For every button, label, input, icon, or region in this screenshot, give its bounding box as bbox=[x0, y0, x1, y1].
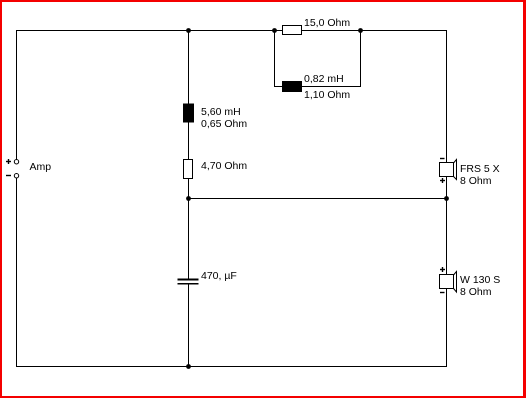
speaker U1 FRS 5 X box bbox=[440, 163, 454, 177]
speaker U2 cone bbox=[454, 272, 457, 293]
node F junction dot bottom bbox=[186, 364, 191, 369]
speaker U2 W 130 S box bbox=[440, 275, 454, 289]
wire bottom return bbox=[16, 366, 447, 368]
svg-text:Amp: Amp bbox=[30, 161, 52, 173]
speaker U2 minus sign bbox=[440, 292, 445, 294]
wire parallel-loop right vertical bbox=[360, 30, 362, 87]
svg-text:5,60 mH: 5,60 mH bbox=[201, 106, 241, 118]
node C junction dot loop right bbox=[358, 28, 363, 33]
wire middle horizontal (node B to right branch) bbox=[188, 198, 447, 200]
amp plus sign bbox=[6, 159, 11, 164]
wire top (node IN to right branch) bbox=[16, 30, 447, 32]
speaker U1 minus sign bbox=[440, 158, 445, 160]
wire right branch vertical bbox=[446, 30, 448, 367]
amp minus sign bbox=[6, 175, 11, 177]
svg-text:8 Ohm: 8 Ohm bbox=[460, 175, 492, 187]
wire left lower (Amp - to bottom wire) bbox=[16, 178, 18, 367]
amp terminal + circle bbox=[14, 160, 18, 164]
wire parallel-loop bottom horizontal bbox=[274, 86, 361, 88]
inductor L1 0,82 mH bbox=[282, 81, 302, 92]
wire middle branch vertical lower (below capacitor) bbox=[188, 284, 190, 368]
wire parallel-loop left vertical bbox=[274, 30, 276, 87]
speaker U1 plus sign bbox=[440, 178, 445, 183]
svg-text:0,65 Ohm: 0,65 Ohm bbox=[201, 118, 247, 130]
resistor R1 15,0 Ohm bbox=[283, 26, 302, 35]
node A junction dot top middle bbox=[186, 28, 191, 33]
amp terminal - circle bbox=[14, 174, 18, 178]
node B junction dot loop left bbox=[272, 28, 277, 33]
wire left upper (top wire to Amp +) bbox=[16, 30, 18, 160]
node E junction dot mid right bbox=[444, 196, 449, 201]
svg-text:8 Ohm: 8 Ohm bbox=[460, 286, 492, 298]
svg-text:470, µF: 470, µF bbox=[201, 270, 237, 282]
speaker U1 cone bbox=[454, 160, 457, 180]
svg-text:FRS 5 X: FRS 5 X bbox=[460, 163, 500, 175]
capacitor C1 470 uF plates bbox=[178, 279, 199, 285]
svg-text:1,10 Ohm: 1,10 Ohm bbox=[304, 89, 350, 101]
node D junction dot mid left bbox=[186, 196, 191, 201]
resistor R2 4,70 Ohm bbox=[184, 160, 193, 179]
wire middle branch vertical upper bbox=[188, 30, 190, 279]
speaker U2 plus sign bbox=[440, 267, 445, 272]
svg-text:4,70 Ohm: 4,70 Ohm bbox=[201, 160, 247, 172]
svg-text:0,82 mH: 0,82 mH bbox=[304, 73, 344, 85]
svg-text:15,0 Ohm: 15,0 Ohm bbox=[304, 17, 350, 29]
svg-text:W 130 S: W 130 S bbox=[460, 274, 500, 286]
inductor L2 5,60 mH bbox=[183, 104, 194, 123]
